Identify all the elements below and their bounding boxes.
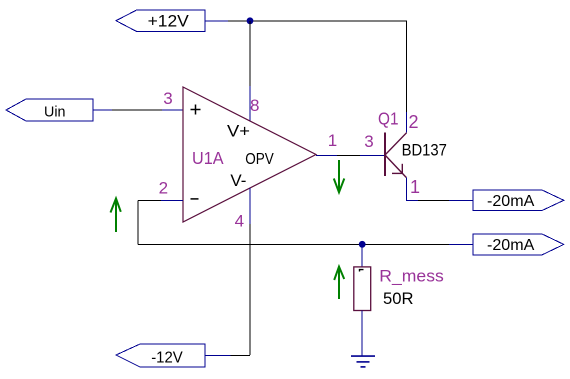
svg-text:-20mA: -20mA xyxy=(487,237,535,254)
pin stub U1A pin 8 xyxy=(249,86,251,121)
svg-text:V-: V- xyxy=(230,171,246,190)
wire output xyxy=(337,154,360,156)
svg-text:Uin: Uin xyxy=(44,103,66,120)
svg-text:BD137: BD137 xyxy=(402,141,447,160)
wire feedback down xyxy=(137,201,139,245)
output tag -20mA lower xyxy=(473,234,564,255)
pin stub R_mess bottom to ground xyxy=(361,311,363,357)
wire feedback horizontal xyxy=(138,243,449,245)
svg-text:R_mess: R_mess xyxy=(379,266,444,285)
wire Uin tag stub xyxy=(93,109,112,111)
svg-text:1: 1 xyxy=(410,177,420,197)
svg-text:U1A: U1A xyxy=(192,148,224,168)
svg-text:8: 8 xyxy=(250,96,259,115)
wire -12V tag stub xyxy=(205,355,231,357)
op-amp U1A body xyxy=(183,87,316,222)
wire +12V to junction xyxy=(228,20,250,22)
pin stub Q1 base pin 3 xyxy=(360,154,385,156)
pin stub R_mess top xyxy=(361,244,363,267)
transistor Q1 xyxy=(385,133,407,178)
wire pin2 left xyxy=(138,200,161,202)
junction node +12V xyxy=(247,17,254,24)
svg-text:-12V: -12V xyxy=(151,350,183,367)
svg-text:+12V: +12V xyxy=(148,11,190,30)
junction node sense xyxy=(359,241,366,248)
wire Uin to op-amp xyxy=(112,109,162,111)
svg-text:2: 2 xyxy=(408,112,418,132)
svg-text:4: 4 xyxy=(235,212,244,231)
resistor top marker xyxy=(360,270,364,272)
pin stub U1A pin 4 xyxy=(249,188,251,224)
power flag +12V xyxy=(116,10,205,32)
output tag -20mA upper xyxy=(473,190,564,211)
wire top rail xyxy=(250,20,407,22)
wire tag1 stub xyxy=(449,199,473,201)
pin stub Q1 emitter pin 1 xyxy=(406,178,418,201)
op-amp minus input marker xyxy=(191,198,199,200)
svg-text:V+: V+ xyxy=(227,122,250,141)
svg-text:Q1: Q1 xyxy=(378,109,399,129)
resistor R_mess xyxy=(354,267,371,311)
current arrow down (output current) xyxy=(334,160,345,192)
current arrow up (R_mess) xyxy=(334,267,344,299)
svg-text:3: 3 xyxy=(163,89,172,108)
wire pin4 down xyxy=(249,224,251,355)
svg-text:1: 1 xyxy=(328,131,337,150)
svg-text:50R: 50R xyxy=(383,289,414,308)
op-amp plus input marker xyxy=(191,105,201,115)
pin stub U1A pin 1 output xyxy=(316,154,337,156)
wire V+ drop xyxy=(249,21,251,86)
pin stub Q1 collector pin 2 xyxy=(406,112,408,133)
power flag -12V xyxy=(116,344,205,367)
svg-text:OPV: OPV xyxy=(245,151,274,168)
wire collector drop xyxy=(406,21,408,112)
svg-text:2: 2 xyxy=(159,179,168,198)
wire to -12V tag xyxy=(231,355,251,357)
pin stub U1A pin 3 xyxy=(162,109,183,111)
wire emitter to tag xyxy=(418,199,449,201)
svg-text:-20mA: -20mA xyxy=(487,193,535,210)
input tag Uin xyxy=(6,99,93,121)
wire +12V tag stub xyxy=(205,20,228,22)
ground xyxy=(351,356,375,367)
current arrow up (feedback) xyxy=(111,199,121,233)
pin stub U1A pin 2 xyxy=(161,200,183,202)
wire tag2 stub xyxy=(449,243,473,245)
svg-text:3: 3 xyxy=(364,132,373,151)
